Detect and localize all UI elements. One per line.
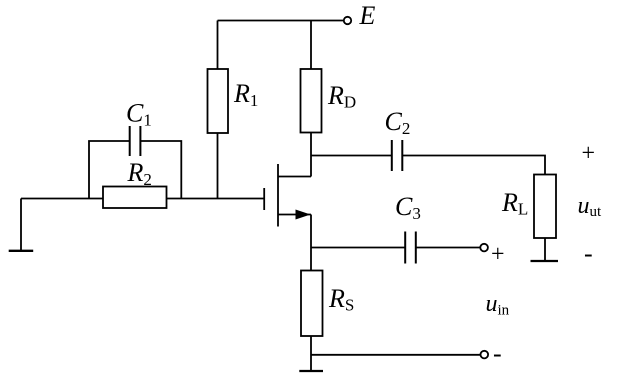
svg-text:RS: RS — [328, 284, 354, 315]
capacitor C2 — [392, 140, 403, 171]
wire RS to ground — [310, 336, 312, 371]
resistor R2 — [103, 187, 167, 209]
wire C1 right branch — [140, 141, 181, 199]
ground RL — [531, 260, 559, 262]
resistor RD — [301, 69, 322, 133]
terminal input plus — [480, 244, 488, 252]
wire gate node to gate — [167, 198, 265, 200]
wire supply rail — [218, 20, 344, 22]
transistor VT channel — [277, 164, 279, 227]
svg-text:-: - — [584, 239, 593, 268]
svg-text:RD: RD — [327, 81, 356, 112]
wire RL to ground — [544, 238, 546, 261]
wire C3 to input terminal — [416, 247, 481, 249]
resistor R1 — [208, 69, 229, 133]
ground input — [9, 250, 34, 252]
wire drain node to C2 — [311, 155, 392, 157]
transistor VT gate bar — [263, 188, 265, 210]
wire C1 left branch — [89, 141, 130, 199]
svg-text:uut: uut — [578, 193, 603, 220]
transistor VT source arrow — [296, 210, 311, 220]
svg-text:uin: uin — [486, 291, 510, 318]
wire rail to RD — [310, 21, 312, 70]
transistor VT drain lead — [278, 176, 311, 178]
svg-text:-: - — [493, 339, 502, 368]
transistor VT source lead — [278, 214, 311, 216]
svg-text:C2: C2 — [385, 107, 411, 138]
svg-text:E: E — [359, 1, 376, 30]
svg-text:R2: R2 — [127, 158, 152, 189]
wire RD to drain — [310, 133, 312, 177]
wire input ground to R2 — [21, 198, 103, 200]
svg-text:+: + — [582, 141, 596, 167]
ground RS — [299, 370, 323, 372]
svg-text:R1: R1 — [233, 79, 258, 110]
terminal input minus — [481, 351, 489, 359]
capacitor C1 — [130, 126, 141, 156]
svg-text:RL: RL — [501, 188, 528, 219]
wire source node to C3 — [311, 247, 405, 249]
wire source node to input terminal minus — [311, 354, 480, 356]
wire R1 to gate node — [217, 133, 219, 199]
svg-text:C3: C3 — [395, 192, 421, 223]
wire source to RS — [310, 215, 312, 271]
resistor RL — [534, 175, 556, 239]
svg-text:+: + — [491, 242, 505, 268]
wire to input ground — [20, 199, 22, 251]
wire rail to R1 — [217, 21, 219, 70]
capacitor C3 — [405, 232, 416, 264]
resistor RS — [301, 271, 323, 337]
terminal E — [344, 17, 351, 24]
svg-text:C1: C1 — [126, 99, 152, 130]
wire C2 to RL — [402, 156, 545, 175]
